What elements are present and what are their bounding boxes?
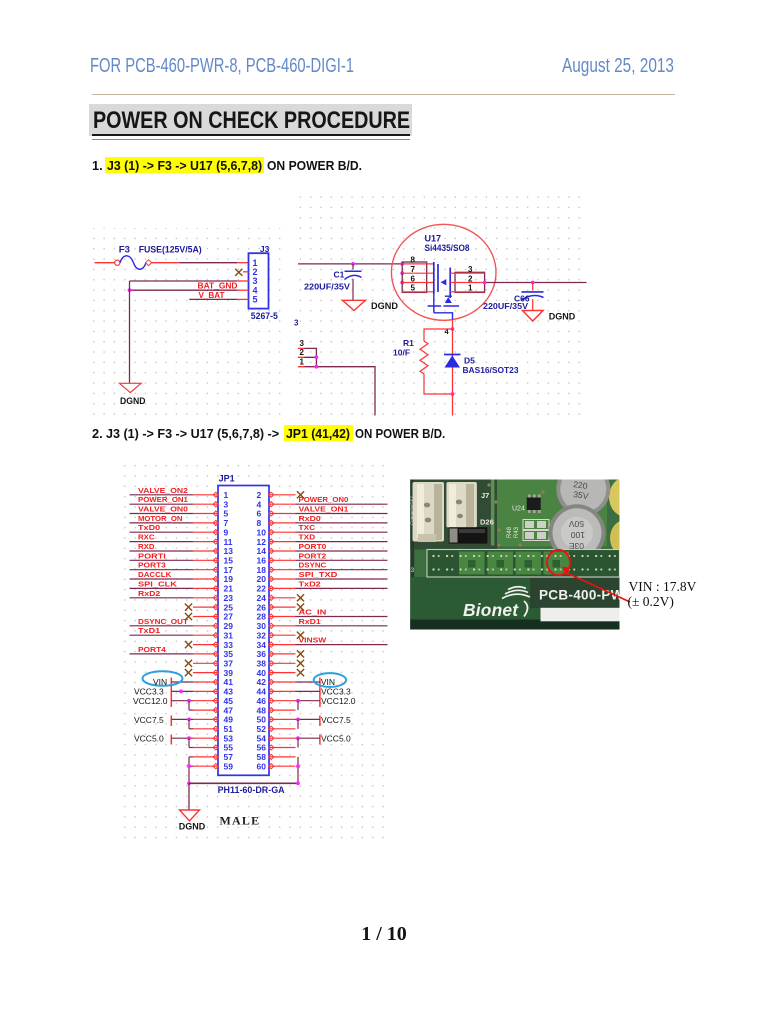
wire branch 54-56 [297,738,299,747]
connector J3 [249,253,269,308]
wire VCC5.0 pin54 [296,737,320,739]
item 1 [92,158,103,173]
wire VCC5.0 pin53 [171,737,193,739]
svg-text:JP1: JP1 [219,474,235,484]
wire net PORT3 pin 17 [130,569,194,571]
pin stub left 47 [193,709,218,711]
svg-text:R48: R48 [507,526,513,538]
svg-text:SPI_CLK: SPI_CLK [138,579,178,588]
grid block schematic1-right [297,195,587,416]
wire fuse to J3 pin1 [152,262,180,264]
svg-text:TxD0: TxD0 [138,523,160,532]
op-amp U17 ellipse [391,224,496,320]
wire net VALVE_ON1 pin 6 [296,513,388,515]
pin stub right 48 [269,709,296,711]
no-connect X pin 37 [185,660,192,667]
no-connect X pin 25 [185,604,192,611]
no-connect X pin 27 [185,613,192,620]
pin stub right 28 [269,616,296,618]
svg-text:VCC5.0: VCC5.0 [321,734,351,744]
photo white sticker [541,608,621,622]
wire vertical to DGND [129,281,131,383]
pin stub right 6 [269,513,296,515]
wire 58/60 to bus right [297,757,299,783]
svg-text:DSYNC_OUT: DSYNC_OUT [138,617,189,626]
svg-text:F3: F3 [119,244,130,255]
annotation arrow [567,573,630,602]
svg-text:5: 5 [253,295,258,305]
pin stub left 43 [193,690,218,692]
VIN annotation text [629,579,697,595]
svg-text:C1: C1 [334,270,345,280]
pin stub left 55 [193,747,218,749]
photo pads [523,520,549,530]
wire net AC_IN pin 28 [296,616,388,618]
pin stub right 32 [269,634,296,636]
wire net DSYNC pin 18 [296,569,388,571]
wire net TxD2 pin 22 [296,587,388,589]
no-connect X pin 36 [297,650,304,657]
pin stub left 11 [193,541,218,543]
svg-text:220UF/35V: 220UF/35V [304,281,350,291]
pin stub left 33 [193,644,218,646]
wire net DACCLK pin 19 [130,578,194,580]
wire VIN pin42 [296,681,320,683]
wire net POWER_ON1 pin 3 [130,503,194,505]
pin stub left 39 [193,672,218,674]
pin stub right 38 [269,662,296,664]
wire net VALVE_ON0 pin 5 [130,513,194,515]
svg-text:DGND: DGND [549,311,576,322]
pin stub left 51 [193,728,218,730]
wire VIN pin41 [171,681,193,683]
pin stub right 10 [269,531,296,533]
header right date [562,55,674,78]
no-connect X pin 32 [297,632,304,639]
item 2 [92,426,103,441]
svg-text:VCC7.5: VCC7.5 [134,715,164,725]
rail VCC7.5 tick [170,716,172,727]
svg-text:RxD0: RxD0 [299,514,321,523]
pin stub right 42 [269,681,296,683]
wire net VALVE_ON2 pin 1 [130,494,194,496]
wire net RxD1 pin 30 [296,625,388,627]
photo connector 2 [446,482,477,528]
svg-text:Connector1&2: Connector1&2 [410,496,415,525]
U17 gate bottom wire [428,294,460,320]
wire VCC3.3 pin44 [296,690,320,692]
wire net PORT2 pin 16 [296,559,388,561]
photo pad strip [427,550,620,578]
svg-text:PCB-400-PWR: PCB-400-PWR [539,588,634,603]
wire VCC12.0 pin45 [171,700,193,702]
pin stub left 19 [193,578,218,580]
ground DGND left block [120,383,142,392]
svg-text:U24: U24 [512,506,525,513]
rail VCC7.5 tick right [319,716,321,727]
wire net TxD1 pin 31 [130,634,194,636]
diode D5 [444,354,461,356]
wire U17 output [485,282,587,284]
resistor R1 loop [424,329,453,341]
svg-text:RXD: RXD [138,542,155,551]
rail VCC5.0 tick right [319,735,321,745]
junction node C1 tap [351,262,355,266]
wire bus to DGND [188,783,190,810]
wire net DSYNC_OUT pin 29 [130,625,194,627]
svg-text:R1: R1 [403,338,414,348]
wire net VINSW pin 34 [296,644,388,646]
pin stub right 52 [269,728,296,730]
title block [89,104,412,136]
no-connect X pin 33 [185,641,192,648]
wire branch 53-55 [188,738,190,747]
pin stub right 34 [269,644,296,646]
svg-text:VCC5.0: VCC5.0 [134,734,164,744]
pin stub left 53 [193,737,218,739]
svg-text:DACCLK: DACCLK [138,570,172,579]
svg-text:VCC3.3: VCC3.3 [134,687,164,697]
svg-text:POWER_ON1: POWER_ON1 [138,495,188,504]
svg-text:RXC: RXC [138,533,155,542]
pin stub right 20 [269,578,296,580]
svg-text:TXD: TXD [299,533,316,542]
svg-text:3: 3 [300,339,305,348]
no-connect X pin 26 [297,604,304,611]
pin stub right 58 [269,756,296,758]
svg-text:50V: 50V [569,519,584,529]
pin stub right 22 [269,587,296,589]
svg-text:FUSE(125V/5A): FUSE(125V/5A) [139,245,202,256]
transistor U17 left pin box [402,262,427,292]
node A VIN circle left [143,671,183,686]
page number [359,923,409,946]
header rule [92,94,675,96]
svg-text:100: 100 [571,530,585,540]
wire branch 45-47 [188,701,190,710]
pin stub left 21 [193,587,218,589]
ground DGND (JP1) [180,810,200,821]
svg-text:2: 2 [300,348,305,357]
wire J3 pin4 [130,289,238,291]
svg-text:220UF/35V: 220UF/35V [483,301,528,311]
pin stub right 2 [269,494,296,496]
rail VIN/VCC right [319,678,321,708]
svg-text:J7: J7 [481,491,489,500]
node 4 [451,327,455,331]
junction node bottom [451,392,455,396]
pin stub right 4 [269,503,296,505]
pin stub right 54 [269,737,296,739]
svg-text:VALVE_ON2: VALVE_ON2 [138,486,188,495]
svg-text:VIN: VIN [321,677,335,687]
wire net TXD pin 12 [296,541,388,543]
wire net TXC pin 10 [296,531,388,533]
pin stub right 14 [269,550,296,552]
wire branch 50-52 [297,719,299,728]
capacitor C66 [532,283,534,291]
svg-text:Si4435/SO8: Si4435/SO8 [425,243,470,253]
svg-text:SPI_TXD: SPI_TXD [299,570,338,579]
wire J3 pin3 BAT_GND [130,280,238,282]
pin stub left 37 [193,662,218,664]
svg-text:10/F: 10/F [393,348,410,358]
pin stub right 56 [269,747,296,749]
svg-text:R43: R43 [514,526,520,538]
svg-text:VALVE_ON0: VALVE_ON0 [138,505,188,514]
svg-text:RxD1: RxD1 [299,617,321,626]
svg-text:35V: 35V [573,489,590,501]
pin stub left 57 [193,756,218,758]
svg-text:VCC3.3: VCC3.3 [321,687,351,697]
wire net SPI_TXD pin 20 [296,578,388,580]
pin stub left 15 [193,559,218,561]
pin stub left 45 [193,700,218,702]
svg-text:59: 59 [224,761,234,771]
svg-text:MOTOR_ON: MOTOR_ON [138,514,182,523]
capacitor C1 [352,264,354,270]
transistor U17 mosfet symbol [433,262,435,294]
wire net RxD0 pin 8 [296,522,388,524]
svg-text:60: 60 [257,761,267,771]
pin stub left 25 [193,606,218,608]
wire VCC12.0 pin46 [296,700,320,702]
connector JP1 body [218,486,269,776]
no-connect X pin2 [243,271,249,273]
pin stub left 29 [193,625,218,627]
no-connect X pin 24 [297,594,304,601]
pin stub left 3 [193,503,218,505]
svg-text:J3: J3 [260,244,270,254]
pin stub right 44 [269,690,296,692]
pin stub left 35 [193,653,218,655]
wire branch 49-51 [188,719,190,728]
photo capacitor 220/35V [556,462,610,516]
wire VCC3.3 pin43 [171,690,193,692]
header left [90,55,354,78]
svg-text:PH11-60-DR-GA: PH11-60-DR-GA [218,785,285,796]
svg-text:1: 1 [300,358,305,367]
pin stub right 30 [269,625,296,627]
no-connect X pin 40 [297,669,304,676]
photo capacitor 100/50V [549,504,606,561]
svg-text:VCC12.0: VCC12.0 [133,696,168,706]
svg-text:VCC7.5: VCC7.5 [321,715,351,725]
wire net PORTI pin 15 [130,559,194,561]
wire net TxD0 pin 9 [130,531,194,533]
no-connect X pin 38 [297,660,304,667]
svg-text:BAS16/SOT23: BAS16/SOT23 [463,365,519,375]
pin stub right 36 [269,653,296,655]
ground bus [189,782,298,784]
pin stub right 24 [269,597,296,599]
ground DGND (C66) [523,311,544,322]
pin stub left 17 [193,569,218,571]
wire 57/59 to bus [188,757,190,783]
wire fragment bus [305,348,376,415]
wire input to fuse [95,262,115,264]
svg-text:DGND: DGND [179,822,206,833]
pin stub left 7 [193,522,218,524]
pin stub left 23 [193,597,218,599]
svg-text:DGND: DGND [371,301,398,312]
svg-text:PORT3: PORT3 [138,561,166,570]
svg-text:PORT0: PORT0 [299,542,327,551]
no-connect X pin 39 [185,669,192,676]
pin stub right 16 [269,559,296,561]
wire net RXD pin 13 [130,550,194,552]
svg-text:D5: D5 [464,356,475,366]
wire net RXC pin 11 [130,541,194,543]
wire net RxD2 pin 23 [130,597,194,599]
wire VCC7.5 pin50 [296,718,320,720]
junction node U17 input [400,262,404,266]
photo PCB board [410,462,644,630]
pin stub left 41 [193,681,218,683]
wire to block bottom [452,394,454,416]
svg-text:VALVE_ON1: VALVE_ON1 [299,505,349,514]
pin stub right 12 [269,541,296,543]
annotation circle VIN pad [547,550,570,575]
svg-text:Bionet: Bionet [463,600,519,620]
svg-text:V_BAT: V_BAT [199,291,225,300]
pin stub left 31 [193,634,218,636]
svg-text:RxD2: RxD2 [138,589,160,598]
svg-text:TxD2: TxD2 [299,579,321,588]
rail VIN/VCC left [170,678,172,708]
wire J3 pin5 V_BAT [189,298,237,300]
node B VIN circle right [314,673,346,687]
wire net PORT4 pin 35 [130,653,194,655]
fuse F3 [115,260,120,265]
svg-text:5267-5: 5267-5 [251,311,278,321]
no-connect X pin 2 [297,491,304,498]
pin stub left 59 [193,765,218,767]
pin stub right 40 [269,672,296,674]
grid block schematic1-left [87,228,282,419]
svg-text:TxD1: TxD1 [138,626,160,635]
pin stub left 9 [193,531,218,533]
svg-text:VIN: VIN [153,677,167,687]
wire net SPI_CLK pin 21 [130,587,194,589]
svg-text:D26: D26 [480,518,494,527]
photo connector 1 [413,482,445,542]
pin stub left 13 [193,550,218,552]
wire net MOTOR_ON pin 7 [130,522,194,524]
pin stub right 26 [269,606,296,608]
pin stub right 46 [269,700,296,702]
junction node pin4 [128,288,132,292]
svg-text:MALE: MALE [220,814,261,828]
wire net POWER_ON0 pin 4 [296,503,388,505]
svg-text:DGND: DGND [120,396,146,407]
pin stub left 27 [193,616,218,618]
grid block schematic2 JP1 [115,461,389,844]
svg-text:3: 3 [294,319,299,328]
U17 body diode [445,297,452,303]
U17 right pin box [455,272,485,292]
pin stub right 50 [269,718,296,720]
svg-text:PORT2: PORT2 [299,551,327,560]
pin stub left 1 [193,494,218,496]
wire net PORT0 pin 14 [296,550,388,552]
pin stub right 8 [269,522,296,524]
wire main input [298,263,402,265]
svg-text:POWER_ON0: POWER_ON0 [299,495,349,504]
ground DGND (C1) [343,300,366,310]
svg-text:VCC12.0: VCC12.0 [321,696,356,706]
pin stub left 49 [193,718,218,720]
pin stub right 60 [269,765,296,767]
wire VCC7.5 pin49 [171,718,193,720]
wire U17 pin4 down [452,320,454,329]
svg-text:PORT4: PORT4 [138,645,166,654]
pin stub left 5 [193,513,218,515]
svg-text:PORTI: PORTI [138,551,166,560]
rail VCC5.0 tick [170,735,172,745]
wire branch 46-48 [297,701,299,710]
svg-text:BAT_GND: BAT_GND [198,282,238,291]
svg-text:DSYNC: DSYNC [299,561,327,570]
pin stub right 18 [269,569,296,571]
svg-text:TXC: TXC [299,523,316,532]
